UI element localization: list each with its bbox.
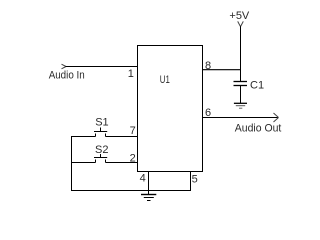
wire: pin 5 down to bottom rail <box>190 172 192 191</box>
ground (pin 4) <box>141 195 156 201</box>
wire: pin 8 to +5V rail <box>202 69 241 71</box>
svg-text:Audio In: Audio In <box>49 69 85 81</box>
input arrow (Audio In) <box>62 64 67 69</box>
wire: C1 to ground <box>240 86 242 103</box>
switch S1 (pushbutton) <box>94 128 107 137</box>
svg-text:S1: S1 <box>95 116 108 128</box>
wire: left rail to S1 <box>71 136 96 138</box>
wire: left rail to S2 <box>71 162 96 164</box>
capacitor C1 top plate <box>234 81 248 83</box>
svg-text:7: 7 <box>130 125 136 137</box>
switch S2 (pushbutton) <box>94 154 107 163</box>
wire: S2 to pin 2 <box>106 162 138 164</box>
svg-text:+5V: +5V <box>229 10 250 22</box>
wire: bottom rail <box>71 190 191 192</box>
svg-text:C1: C1 <box>250 80 264 92</box>
svg-text:6: 6 <box>205 107 211 119</box>
svg-text:1: 1 <box>128 68 134 80</box>
wire: pin 6 to Audio Out <box>202 117 279 119</box>
+5V power arrow <box>238 21 244 26</box>
ground (below C1) <box>234 103 247 108</box>
wire: S1 to pin 7 <box>106 136 138 138</box>
capacitor C1 bottom plate <box>234 85 248 87</box>
svg-text:U1: U1 <box>160 74 170 86</box>
svg-text:Audio Out: Audio Out <box>235 122 281 134</box>
wire: pin 4 down to ground <box>148 172 150 195</box>
wire: +5V rail down to capacitor C1 <box>240 26 242 81</box>
svg-text:5: 5 <box>192 174 198 186</box>
svg-text:2: 2 <box>130 153 136 165</box>
wire: left vertical rail joining S1 S2 and bottom rail <box>71 136 73 191</box>
wire: Audio In to pin 1 <box>66 66 138 68</box>
op-amp / IC U1 body <box>138 46 203 172</box>
svg-text:4: 4 <box>140 173 146 185</box>
svg-text:8: 8 <box>205 60 211 72</box>
svg-text:S2: S2 <box>95 144 108 156</box>
output arrow (Audio Out) <box>274 113 279 122</box>
